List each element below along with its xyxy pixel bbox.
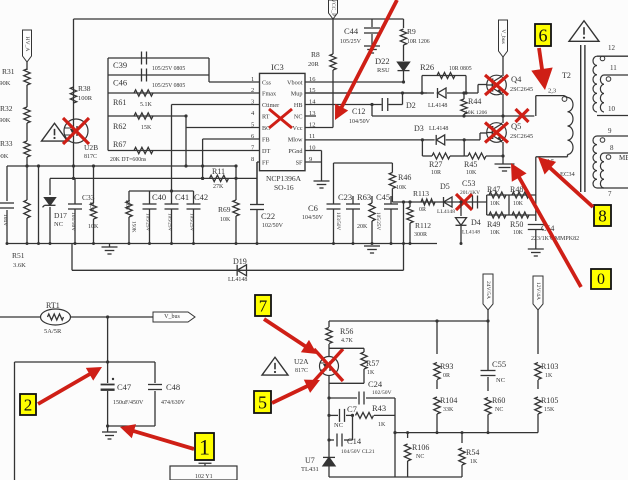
wire R104 b [436,414,438,433]
wire D3 right [446,139,465,141]
wire R93 v1 [436,321,438,354]
svg-text:8: 8 [610,144,614,152]
resistor R51 [24,200,30,218]
wire sense left vert [486,195,488,215]
wire pin10 vert [321,151,323,182]
svg-text:Fmax: Fmax [262,91,277,98]
wire C47 drop [107,317,109,362]
junction fb bus2 [393,431,396,434]
wire C40 b [149,209,151,244]
ground Q5 [495,163,515,165]
svg-text:Mup: Mup [291,91,303,98]
wire C47 v [107,362,109,383]
red X over Q5 [485,123,508,143]
svg-text:RSU: RSU [377,67,390,74]
wire pin14 lead [305,104,382,106]
junction box top [106,360,109,363]
svg-text:102/50V: 102/50V [262,223,284,229]
resistor R60 [485,398,491,415]
junction A-R39 [92,164,95,167]
wire primary sense vert [535,157,537,195]
wire R46 b [391,189,393,203]
svg-text:105/25V: 105/25V [167,213,173,231]
wire U2A-R57 top [329,347,364,349]
svg-text:LL4148: LL4148 [437,209,455,215]
svg-text:10K: 10K [490,230,501,236]
svg-text:U2A: U2A [294,357,309,366]
svg-text:104/50V CL21: 104/50V CL21 [341,449,375,455]
wire pin2 lead [108,92,260,94]
junction R44 top [462,91,465,94]
box C13 Y1 [170,466,237,480]
svg-text:33K: 33K [443,407,454,413]
wire R93-R104 [436,380,438,389]
svg-text:C44: C44 [344,26,359,36]
svg-text:C7: C7 [347,404,357,414]
wire R8 bottom [332,70,334,128]
wire sense row [392,201,486,203]
svg-text:C41: C41 [175,192,189,202]
wire C6 b [333,209,335,244]
svg-text:1K: 1K [545,373,553,379]
wire U2A-R57 bottom [329,382,364,384]
wire timing top [129,190,194,192]
svg-text:Q5: Q5 [511,121,521,131]
wire R103-R105 [537,380,539,389]
junction bridge mid [501,114,504,117]
wire row to bus vert [403,202,405,244]
red X over U2B [63,118,89,144]
svg-text:HB: HB [294,102,303,109]
red X over Q4 [485,75,508,95]
svg-text:U7: U7 [305,456,315,465]
junction D2 left [420,91,423,94]
svg-text:SF: SF [296,160,303,167]
ground C54 [528,248,544,250]
wire top rail [74,18,404,20]
wire C44 top [371,19,373,27]
svg-text:10K: 10K [396,185,407,191]
svg-text:2SC2645: 2SC2645 [510,133,533,140]
svg-text:R60: R60 [492,396,505,405]
red X over C53 [456,194,472,210]
svg-text:105/25V: 105/25V [375,212,381,230]
svg-text:VCC_P: VCC_P [330,0,336,16]
phase dot primary [562,97,567,102]
wire D19 right vert [403,244,405,271]
svg-text:R38: R38 [78,84,91,93]
svg-text:R54: R54 [466,448,479,457]
svg-text:890K: 890K [0,153,9,160]
wire R56 t [328,321,330,327]
junction row-403 [402,200,405,203]
svg-text:R46: R46 [398,173,411,182]
svg-text:R69: R69 [218,205,231,214]
svg-text:V_bus: V_bus [164,314,180,320]
flag V_bus right [153,312,195,322]
svg-text:C33: C33 [82,193,95,202]
svg-text:MB: MB [619,154,628,162]
svg-text:104/50V: 104/50V [302,215,324,221]
wire D17 bottom [49,207,51,244]
callout box 2 [20,394,36,415]
junction R93 top [435,319,438,322]
junction C41 top [170,189,173,192]
svg-text:10K 1206: 10K 1206 [465,110,487,116]
resistor R48 [512,192,529,198]
wire R9 top [403,19,405,28]
svg-text:6: 6 [539,26,548,46]
svg-text:D17: D17 [54,211,67,220]
wire fb right vert [394,398,396,477]
svg-text:104V: 104V [2,214,8,226]
wire R112 t [409,202,411,207]
svg-text:D3: D3 [414,124,424,133]
svg-text:R68: R68 [124,200,130,210]
wire C39 row [108,57,209,59]
transformer T2 primary lead bottom [536,156,568,158]
resistor R31 [24,69,30,85]
svg-text:LL4148: LL4148 [428,103,447,109]
wire R9-D22 [403,45,405,61]
wire C54 stem [535,230,537,249]
junction pin5-R62 [184,114,187,117]
resistor R50 [512,212,529,218]
flag V_bus top [499,20,508,57]
capacitor C54 [528,224,544,226]
capacitor C7 [329,414,338,416]
wire cap box top [15,361,156,363]
wire C45 b [390,209,392,244]
junction R69 top [234,177,237,180]
flag VCC_P [329,0,338,19]
wire R60 b [487,415,489,433]
wire C39C46 right vert [208,58,210,82]
svg-text:C48: C48 [166,382,180,392]
junction A-U2B [72,164,75,167]
warning triangle top right [569,21,599,42]
wire C42 b [193,209,195,244]
svg-text:FB: FB [262,137,270,144]
wire fb top bus [329,320,488,322]
callout box 6 [535,24,551,46]
ground IC3 PGnd [314,180,330,182]
callout box 5 [254,391,271,413]
svg-text:10K: 10K [220,217,231,223]
svg-text:R44: R44 [468,97,481,106]
wire D17 top [49,178,51,195]
svg-text:HV_A: HV_A [24,37,30,52]
svg-text:V_bus: V_bus [500,29,506,44]
wire pin15 lead [305,92,434,94]
resistor R43 [356,412,374,418]
wire bus drop1 [109,244,111,248]
svg-text:D22: D22 [375,56,390,66]
junction D3 right [463,138,466,141]
svg-text:C40: C40 [152,192,166,202]
wire D19 row [72,269,404,271]
svg-text:C14: C14 [347,436,362,446]
svg-text:NCP1396A: NCP1396A [266,174,302,183]
red arrow 2 to C47 node [38,374,91,404]
svg-text:105/25V: 105/25V [189,213,195,231]
svg-text:C39: C39 [113,60,127,70]
red arrow to IC3 Vcc pin [341,0,397,108]
shunt regulator U7 TL431 [323,457,335,465]
capacitor C53 [472,196,474,209]
wire sense row1 [487,194,536,196]
svg-text:T2: T2 [562,71,571,80]
svg-text:7: 7 [259,297,268,316]
wire pin6 lead [203,138,260,140]
svg-text:10R: 10R [431,170,441,176]
wire R56-U2A [328,344,330,357]
svg-text:C42: C42 [194,192,208,202]
svg-text:TL431: TL431 [301,466,319,473]
wire pin5 lead [186,127,260,129]
svg-text:105/25V 0805: 105/25V 0805 [152,66,185,72]
wire R39 top [93,166,95,203]
svg-text:20K DT=600ns: 20K DT=600ns [110,157,147,163]
svg-text:103/50V: 103/50V [335,212,341,230]
svg-text:R31: R31 [2,67,15,76]
svg-text:R56: R56 [340,327,353,336]
wire C33 top [74,178,76,204]
wire pin4 lead [108,115,186,117]
transformer T2 primary lead top [536,95,564,97]
wire D19 left vert [71,244,73,271]
wire C12 down [371,105,373,117]
svg-text:Q4: Q4 [511,74,522,84]
wire R68 v [128,191,130,201]
wire U2A down [328,376,330,478]
svg-text:D2: D2 [406,101,416,110]
wire Q4-Q5 [502,94,504,123]
wire left cap top [6,166,8,201]
wire fb bus2 [395,432,538,434]
svg-text:11: 11 [309,133,315,140]
wire sense right vert [535,195,537,221]
red arrow 8 to node 4,5 [549,167,593,207]
svg-text:C46: C46 [113,78,127,88]
diode D3 [436,135,445,145]
svg-text:R8: R8 [311,50,320,59]
svg-text:1: 1 [199,435,210,460]
diode D19 [237,265,246,276]
wire R54 t [461,433,463,443]
wire C40 t [149,191,151,204]
svg-text:NC: NC [416,454,424,460]
wire pin3 vert [171,105,173,205]
wire R63 b [371,221,373,244]
wire pin16 lead [305,81,404,83]
svg-text:10K: 10K [466,170,477,176]
svg-text:100R: 100R [78,95,93,102]
svg-text:890K: 890K [0,80,11,87]
svg-text:11: 11 [610,64,617,72]
red X on HB wire [516,109,529,122]
transistor Q5 [487,123,507,143]
red arrow 6 to node 2,3 [539,48,542,71]
wire C42 t [193,191,195,204]
wire pin3 lead [172,104,260,106]
junction A end [234,164,237,167]
svg-text:NC: NC [495,407,503,413]
svg-text:R27: R27 [429,160,442,169]
wire main bus [7,243,437,245]
wire R106 b [407,461,409,477]
junction R44-HB [462,114,465,117]
callout box 7 [255,295,271,316]
svg-text:1K: 1K [470,459,478,465]
wire C41 b [171,209,173,244]
svg-text:3.6K: 3.6K [13,262,26,269]
svg-text:R45: R45 [464,160,477,169]
svg-text:101/50V: 101/50V [70,212,76,231]
junction 24V bus [486,319,489,322]
svg-text:R106: R106 [412,443,429,452]
red X over U2A [314,349,343,381]
svg-text:2: 2 [24,396,33,415]
svg-text:Css: Css [262,80,272,87]
svg-text:20K: 20K [357,224,368,230]
resistor R32 [24,107,30,123]
wire net B [50,177,257,179]
wire R33 down [26,157,28,200]
resistor R45 [464,155,468,157]
wire R46 stub [391,163,393,173]
junction C47 bottom [106,424,109,427]
wire sense mid vert [508,195,510,215]
svg-text:1K: 1K [378,422,386,428]
transistor Q4 [487,75,507,95]
svg-text:C53: C53 [462,179,475,188]
wire pin10 lead [305,150,322,152]
svg-text:R113: R113 [413,189,429,198]
svg-text:R26: R26 [420,62,434,72]
junction C7 [327,414,330,417]
svg-text:R112: R112 [415,221,431,230]
warning triangle left [42,123,68,141]
flag HV_A [23,30,32,62]
svg-text:5: 5 [258,393,267,413]
diode D2 [438,88,447,98]
red arrow 5 to U2A [272,386,308,403]
wire RT1 left [0,316,41,318]
svg-text:150uF/450V: 150uF/450V [113,400,144,406]
svg-text:2SC2645: 2SC2645 [510,86,533,93]
svg-text:0R: 0R [419,207,426,213]
wire R63 t [371,196,373,203]
svg-text:NC: NC [54,221,63,228]
junction R45 emitter [501,154,504,157]
junction C12 corner [370,103,373,106]
capacitor C14 [329,439,334,441]
wire flag HV_A to R31 [26,62,28,70]
wire C41 t [171,203,173,205]
wire sense row2 [487,214,536,216]
wire left cap bottom [6,210,8,244]
svg-text:10: 10 [608,105,616,113]
junction pin16-D22 [402,80,405,83]
ground main bus mid [364,245,380,247]
svg-text:150K: 150K [131,221,137,233]
svg-text:817C: 817C [84,154,97,160]
svg-text:SO-16: SO-16 [274,183,294,192]
svg-text:9: 9 [608,127,612,135]
resistor R27 [421,140,423,156]
svg-text:C24: C24 [368,379,383,389]
svg-text:FF: FF [262,160,269,167]
capacitor C24 [329,397,357,399]
svg-text:RT1: RT1 [46,301,60,310]
wire pin5 vert [185,116,187,166]
flag 12V/4A [533,276,543,310]
wire D4 b [460,226,462,244]
wire R51 to bus [26,218,28,244]
wire pin15 lead [305,92,427,94]
svg-text:NC: NC [496,377,505,384]
junction C24 [327,396,330,399]
wire to Q5 base [464,139,480,141]
svg-text:C22: C22 [261,211,275,221]
svg-text:12V/4A: 12V/4A [535,282,541,300]
flag 24V/5A [483,274,493,310]
svg-text:8: 8 [251,156,254,163]
svg-text:R50: R50 [510,220,523,229]
wire D4 t [460,202,462,216]
junction pin6-A [201,164,204,167]
transformer secondary winding 12-11 [597,55,628,57]
svg-text:1: 1 [251,76,254,83]
svg-text:5: 5 [251,122,254,129]
wire C23 t [352,196,354,204]
wire to Q4 base [466,92,478,94]
svg-text:7: 7 [608,190,612,198]
junction R11 left [201,177,204,180]
optocoupler U2A [320,357,339,376]
wire net A left [7,165,236,167]
wire C12 right up [402,93,404,105]
svg-text:10R 0805: 10R 0805 [449,66,472,72]
wire C6 t [333,163,335,204]
wire cap box left [14,362,16,480]
svg-text:1K: 1K [367,370,375,376]
wire fb bottom [329,476,462,478]
junction C12-pin15 [401,91,404,94]
wire C22 v [256,162,258,204]
junction A-R51 [25,164,28,167]
svg-text:C23: C23 [338,192,352,202]
wire pin6 vert [202,139,204,178]
wire C44 stem [371,34,373,46]
transformer core [580,45,582,192]
red X over IC3 RT/BO pins [269,109,292,128]
junction C47 top [106,315,109,318]
svg-text:8: 8 [598,207,607,226]
wire R8 top [332,19,334,54]
wire RT1 right [70,316,153,318]
wire Vbus to Q4 [502,57,504,76]
svg-text:R63: R63 [357,192,371,202]
svg-text:R104: R104 [440,396,457,405]
svg-text:102/50V: 102/50V [372,390,392,396]
pin13 stub [305,115,316,117]
svg-text:24V/5A: 24V/5A [485,281,491,299]
svg-text:5.1K: 5.1K [140,102,153,108]
svg-text:LL4148: LL4148 [429,126,448,132]
svg-text:R62: R62 [113,122,126,131]
